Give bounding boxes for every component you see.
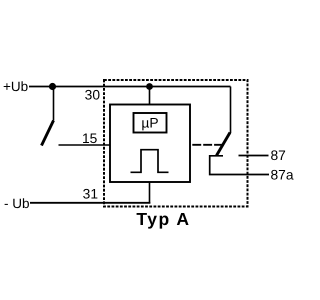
87a contact step lead [210,156,269,175]
dashed actuator link [192,144,222,146]
svg-text:15: 15 [82,131,98,146]
wire terminal 31 [30,202,150,204]
node junction J2 [146,83,153,90]
wire terminal 87 [239,155,269,157]
svg-text:+Ub: +Ub [3,79,28,94]
switch S1 blade [42,121,54,146]
pulse waveform symbol [131,150,169,173]
node junction J1 [49,83,56,90]
svg-text:87a: 87a [271,167,294,182]
svg-text:- Ub: - Ub [4,196,30,211]
svg-text:µP: µP [141,115,158,130]
relay contact blade K1 [217,133,231,156]
svg-text:Typ A: Typ A [136,209,190,229]
wire control unit to terminal 31 [149,182,151,203]
wire contact common lead (from 30 rail) [230,87,232,134]
svg-text:31: 31 [83,187,98,202]
control unit U1 box [110,105,190,183]
microprocessor µP box [134,113,167,133]
svg-text:30: 30 [85,87,101,102]
relay housing outline (dashed) [104,80,248,207]
svg-text:87: 87 [271,148,286,163]
wire switch lead [53,87,55,121]
wire node J2 to control unit [149,87,151,105]
wire terminal 15 [59,144,111,146]
wire +Ub rail (terminal 30) [29,86,231,88]
